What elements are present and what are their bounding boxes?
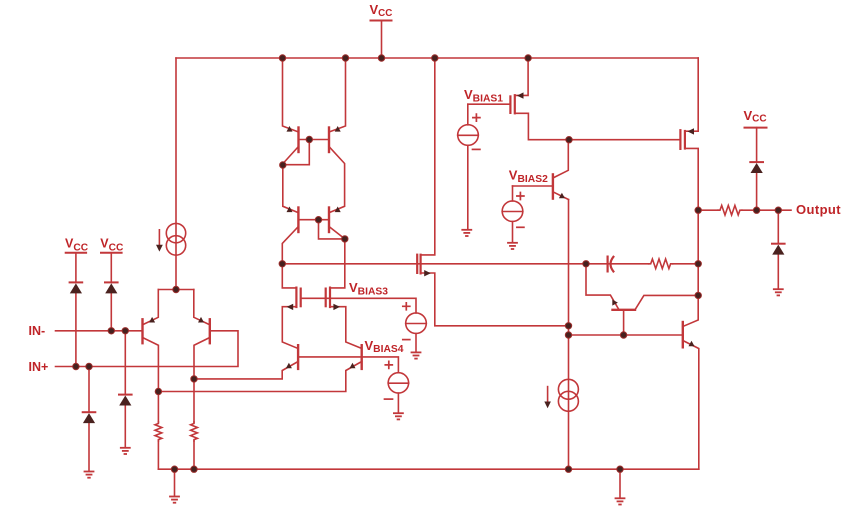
svg-text:VBIAS3: VBIAS3	[349, 280, 388, 297]
svg-text:VBIAS2: VBIAS2	[509, 167, 548, 185]
svg-text:VCC: VCC	[65, 236, 89, 253]
svg-text:VCC: VCC	[100, 236, 124, 253]
svg-text:IN+: IN+	[29, 360, 49, 374]
svg-text:VBIAS1: VBIAS1	[464, 87, 503, 104]
svg-text:VCC: VCC	[744, 108, 767, 125]
svg-text:VCC: VCC	[370, 2, 393, 19]
svg-text:VBIAS4: VBIAS4	[365, 338, 404, 355]
svg-text:Output: Output	[796, 202, 841, 217]
svg-text:IN-: IN-	[29, 324, 46, 338]
